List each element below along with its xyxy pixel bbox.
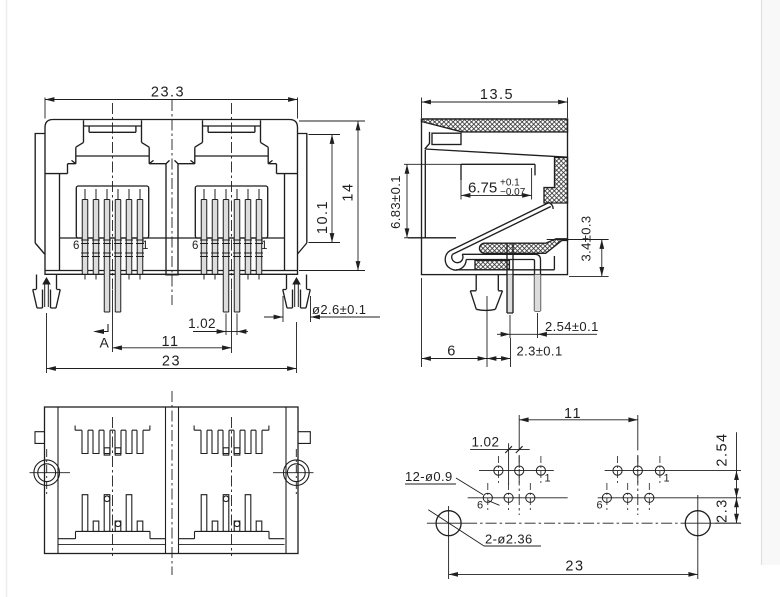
- svg-text:2.3: 2.3: [715, 498, 731, 523]
- svg-text:6: 6: [597, 500, 603, 512]
- left mounting peg: [33, 275, 61, 309]
- svg-text:13.5: 13.5: [480, 87, 514, 103]
- dimension 10.1: [309, 135, 341, 243]
- left inner wall lip: [425, 132, 430, 238]
- comb end stubs: [75, 426, 269, 431]
- page left edge faint border: [6, 0, 8, 597]
- svg-text:6: 6: [73, 240, 79, 252]
- big hole right 2.36: [685, 511, 710, 536]
- small hole vertical dashes group2: [607, 456, 660, 513]
- bottom left tab: [35, 432, 45, 444]
- svg-text:2.54: 2.54: [715, 432, 731, 466]
- bottom lower slots port 2: [201, 495, 262, 532]
- port 2 mouth: [191, 120, 273, 238]
- svg-text:2.54±0.1: 2.54±0.1: [545, 319, 599, 334]
- contact spring loop: [445, 251, 466, 270]
- svg-text:1.02: 1.02: [472, 435, 500, 450]
- pin hole circles port 1: [104, 496, 110, 502]
- dimension 2.54 footprint: [715, 432, 737, 498]
- big hole left 2.36: [436, 511, 461, 536]
- svg-text:11: 11: [564, 406, 582, 422]
- big hole crosshairs: [427, 495, 741, 541]
- label 12-dia0.9 with leader: [405, 469, 500, 505]
- bottom comb port 1: [75, 430, 150, 455]
- footprint pin labels: [477, 473, 670, 512]
- svg-text:ø2.6±0.1: ø2.6±0.1: [312, 302, 366, 317]
- group centerlines vertical: [519, 455, 638, 515]
- dimension 6 and 2.3: [422, 278, 563, 367]
- svg-text:10.1: 10.1: [315, 200, 331, 234]
- dimension 1.02 footprint: [470, 435, 530, 485]
- latch slot rect: [432, 133, 461, 144]
- dimension 6.75: [461, 168, 532, 200]
- bottom inner walls: [58, 407, 286, 554]
- dimension 14: [299, 121, 365, 271]
- center divider bar: [166, 160, 178, 274]
- right mounting peg: [283, 275, 311, 309]
- bottom inner base line: [58, 544, 285, 546]
- bottom body outline: [45, 407, 299, 554]
- dimension 2.54: [497, 313, 599, 338]
- row lines bottom: [468, 497, 741, 499]
- svg-text:1: 1: [261, 240, 267, 252]
- bottom centerline middle: [171, 391, 173, 575]
- svg-text:23: 23: [162, 353, 181, 369]
- dimension 1.02 front: [188, 314, 248, 336]
- bottom band port 1: [58, 531, 166, 538]
- pin 1 side: [507, 244, 513, 314]
- svg-text:23: 23: [565, 559, 584, 575]
- bottom inner line: [456, 256, 554, 270]
- outer step lines: [45, 164, 297, 174]
- bottom right tab: [298, 432, 310, 444]
- inner side walls: [60, 174, 285, 271]
- bottom centerline port 1: [112, 417, 114, 556]
- centerline port 1: [112, 103, 114, 290]
- left flange: [35, 134, 45, 255]
- small holes group 2: [602, 466, 664, 502]
- inner step lines to divider: [149, 163, 195, 165]
- dimension 6.83: [388, 164, 461, 238]
- svg-text:6: 6: [477, 500, 483, 512]
- dimension 3.4: [547, 215, 609, 276]
- page right gray sidebar: [762, 0, 780, 565]
- port 2 contact pins: [201, 200, 262, 313]
- svg-text:12-ø0.9: 12-ø0.9: [405, 469, 453, 484]
- svg-text:6.75: 6.75: [468, 180, 497, 197]
- svg-text:1.02: 1.02: [188, 316, 216, 331]
- port 1 mouth: [72, 120, 154, 238]
- right hatched column: [544, 158, 568, 204]
- section A marker: [93, 324, 110, 351]
- contact spring diagonal: [450, 203, 553, 255]
- inner shelf line 6.75: [461, 164, 535, 180]
- centerline middle: [171, 100, 173, 305]
- side peg: [470, 275, 502, 311]
- bottom comb port 2: [194, 430, 269, 455]
- svg-text:1: 1: [545, 473, 551, 485]
- right flange: [298, 134, 307, 255]
- label 2-dia2.36 with leader: [428, 510, 541, 547]
- bottom divider: [166, 407, 179, 554]
- dimension dia 2.6: [264, 296, 380, 322]
- dimension 11 footprint: [519, 406, 638, 450]
- small hole vertical dashes group1: [488, 456, 541, 513]
- pin hole circles port 2: [223, 496, 229, 502]
- right peg hole circles: [273, 449, 314, 496]
- dimension 2.3 footprint: [715, 498, 742, 523]
- dimension 13.5: [422, 87, 568, 118]
- contact spring horizontal run and pin 2 bend: [462, 254, 540, 311]
- front body outline: [45, 120, 298, 275]
- bottom centerline port 2: [231, 417, 233, 556]
- row lines top: [479, 470, 741, 472]
- inner shelf line lower: [408, 237, 456, 239]
- dimension 11 front: [113, 290, 232, 353]
- bottom band port 2: [179, 531, 285, 538]
- side body outline: [422, 119, 568, 275]
- small holes group 1: [483, 466, 545, 502]
- svg-text:1: 1: [664, 473, 670, 485]
- left peg hole circles: [30, 449, 71, 496]
- dimension 23.3: [45, 85, 298, 119]
- svg-text:23.3: 23.3: [151, 85, 185, 101]
- svg-text:2-ø2.36: 2-ø2.36: [485, 532, 533, 547]
- svg-text:A: A: [100, 335, 110, 351]
- svg-text:11: 11: [161, 334, 179, 350]
- front lower step line: [60, 237, 285, 239]
- svg-text:−0.07: −0.07: [500, 187, 526, 198]
- top shield band hatched: [422, 119, 568, 132]
- dimension 23 front: [47, 313, 297, 373]
- svg-text:2.3±0.1: 2.3±0.1: [517, 344, 563, 359]
- bottom lower slots port 1: [82, 495, 143, 532]
- svg-text:6: 6: [192, 240, 198, 252]
- horizontal centerline between big holes: [466, 522, 683, 524]
- port 1 contact pins: [82, 200, 143, 313]
- svg-text:1: 1: [142, 240, 148, 252]
- pin number labels front: [73, 240, 267, 252]
- dimension 23 footprint: [449, 539, 698, 580]
- svg-text:14: 14: [341, 182, 357, 201]
- svg-text:6.83±0.1: 6.83±0.1: [388, 175, 403, 229]
- svg-text:6: 6: [447, 344, 457, 360]
- centerline port 2: [231, 103, 233, 290]
- svg-text:3.4±0.3: 3.4±0.3: [579, 215, 594, 261]
- cavity floor slant: [425, 149, 568, 157]
- side pins gray fill: [507, 275, 513, 313]
- lower hatch block: [475, 261, 509, 270]
- upper hatch bar: [479, 239, 567, 254]
